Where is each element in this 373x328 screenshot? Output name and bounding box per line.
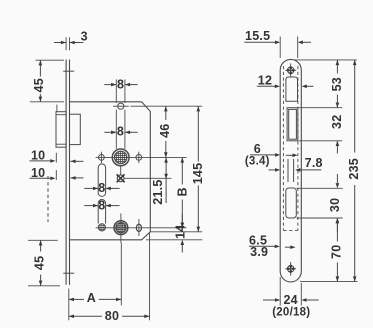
svg-text:7.8: 7.8 xyxy=(305,156,323,170)
svg-text:8: 8 xyxy=(117,77,124,91)
svg-text:8: 8 xyxy=(98,198,105,212)
svg-text:80: 80 xyxy=(105,309,119,323)
svg-text:8: 8 xyxy=(117,125,124,139)
svg-text:6: 6 xyxy=(254,142,261,156)
svg-text:46: 46 xyxy=(158,123,172,137)
svg-text:45: 45 xyxy=(33,256,47,270)
svg-text:14: 14 xyxy=(173,224,187,238)
svg-text:(3.4): (3.4) xyxy=(245,155,270,167)
svg-text:30: 30 xyxy=(328,198,342,212)
svg-text:3.9: 3.9 xyxy=(250,245,268,259)
svg-text:12: 12 xyxy=(258,73,272,87)
svg-text:32: 32 xyxy=(330,115,344,129)
svg-text:10: 10 xyxy=(31,166,45,180)
svg-text:235: 235 xyxy=(347,158,361,180)
svg-text:(20/18): (20/18) xyxy=(272,307,310,319)
svg-text:8: 8 xyxy=(98,181,105,195)
svg-text:B: B xyxy=(176,187,190,196)
svg-text:3: 3 xyxy=(81,30,88,44)
svg-text:45: 45 xyxy=(32,78,46,92)
svg-text:21.5: 21.5 xyxy=(151,179,165,204)
svg-text:24: 24 xyxy=(283,293,297,307)
svg-text:15.5: 15.5 xyxy=(245,29,270,43)
svg-text:145: 145 xyxy=(191,163,205,185)
svg-text:10: 10 xyxy=(31,148,45,162)
svg-text:70: 70 xyxy=(330,245,344,259)
svg-text:A: A xyxy=(87,291,96,305)
svg-text:53: 53 xyxy=(330,77,344,91)
